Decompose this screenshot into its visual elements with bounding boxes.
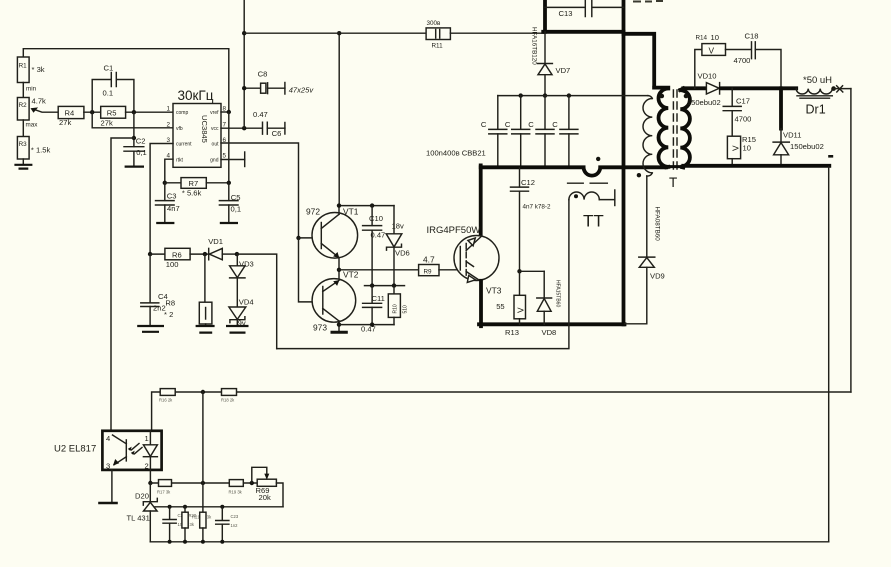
svg-text:R5: R5 — [107, 108, 117, 117]
svg-text:30кГц: 30кГц — [178, 88, 214, 103]
diode VD3 — [230, 254, 254, 278]
svg-text:VT3: VT3 — [486, 285, 502, 295]
thick + rail from secondary — [683, 86, 706, 90]
wire regulation row — [150, 482, 257, 484]
svg-text:C12: C12 — [521, 178, 535, 187]
current transformer TT — [568, 183, 615, 230]
svg-text:4700: 4700 — [734, 56, 751, 65]
diode VD1 — [208, 237, 236, 260]
svg-text:vfb: vfb — [176, 126, 183, 132]
svg-text:HFA16TB120: HFA16TB120 — [531, 27, 538, 65]
svg-text:VD3: VD3 — [239, 260, 254, 269]
inductor Dr1 — [796, 75, 832, 117]
svg-text:10: 10 — [743, 143, 751, 152]
wire VT1 emitter to VT2 — [338, 258, 340, 281]
capacitor C (3 of 4) — [528, 96, 554, 168]
capacitor C (2 of 4) — [505, 96, 530, 168]
svg-text:C5: C5 — [231, 193, 241, 202]
svg-text:0.47: 0.47 — [253, 110, 268, 119]
potentiometer R69 20k — [252, 467, 283, 507]
ground opto — [98, 502, 118, 505]
wire to VD8 — [520, 270, 545, 272]
zener VD4 9v — [226, 278, 254, 333]
IGBT VT3 IRG4PF50W — [427, 225, 502, 295]
resistor R18 — [221, 389, 237, 403]
svg-text:3: 3 — [106, 462, 110, 471]
svg-text:HFA08TB60: HFA08TB60 — [654, 207, 661, 242]
thick wire VT3 emitter down — [479, 281, 483, 326]
node ref/C21 — [168, 505, 172, 509]
wire supply column from startup row — [338, 33, 340, 205]
optocoupler U2 EL817 — [54, 431, 162, 471]
wire VT1 collector up to supply — [338, 206, 340, 215]
svg-text:rtkt: rtkt — [176, 157, 184, 163]
svg-text:972: 972 — [306, 206, 320, 216]
capacitor C5 — [219, 183, 241, 223]
node rail/R20 — [183, 540, 187, 544]
node cap4 — [567, 93, 571, 97]
capacitor C8 — [244, 70, 314, 95]
svg-text:D20: D20 — [135, 492, 149, 501]
node divider mid — [201, 481, 205, 485]
svg-text:V: V — [709, 46, 715, 56]
svg-text:vcc: vcc — [211, 126, 219, 132]
svg-text:V: V — [731, 145, 741, 151]
resistor R7 — [165, 178, 229, 198]
capacitor C10 — [363, 206, 386, 286]
pin 3 current wire — [150, 144, 173, 255]
svg-text:150ebu02: 150ebu02 — [790, 142, 824, 151]
node vcc — [242, 126, 246, 130]
pin 6 out wire to driver bases — [221, 143, 299, 238]
pin 4 rt/ct stub — [165, 159, 173, 183]
svg-text:VD7: VD7 — [556, 66, 571, 75]
node R6/VD1/R8 — [203, 252, 207, 256]
svg-text:C: C — [505, 120, 511, 129]
svg-text:18v: 18v — [392, 222, 404, 231]
svg-text:C13: C13 — [559, 9, 573, 18]
transistor VT2 (973 PNP) — [312, 269, 359, 332]
wire vfb jog from divider to pin2 — [92, 112, 173, 128]
wire TL431 ref row — [155, 506, 283, 508]
svg-text:comp: comp — [176, 110, 188, 116]
pin 5 gnd stub — [221, 152, 245, 167]
wire R1 top to vref — [23, 49, 229, 112]
svg-text:R8: R8 — [165, 299, 175, 308]
node vref — [227, 110, 231, 114]
ground under VT2 — [331, 331, 348, 334]
svg-text:2: 2 — [145, 462, 149, 471]
svg-text:4.7k: 4.7k — [32, 97, 47, 106]
svg-text:* 2: * 2 — [164, 310, 173, 319]
node pin3/R6/C4 — [148, 252, 152, 256]
svg-text:VD4: VD4 — [239, 298, 254, 307]
svg-text:V: V — [516, 307, 526, 313]
svg-text:R21: R21 — [192, 515, 200, 520]
transformer T secondary winding (thick) — [680, 88, 690, 167]
node rail/C21 — [168, 540, 172, 544]
svg-text:* 5.6k: * 5.6k — [182, 188, 202, 197]
wire vref column down to R7/C5 — [228, 112, 230, 183]
svg-text:VD9: VD9 — [650, 272, 665, 281]
svg-text:R7: R7 — [189, 179, 199, 188]
capacitor C (4 of 4) — [552, 96, 578, 168]
diode VD7 — [531, 27, 571, 96]
capacitor C11 — [361, 286, 385, 334]
transformer T aux winding (thin) — [643, 96, 652, 257]
node rail/R21 — [201, 540, 205, 544]
node VD6 mid — [392, 283, 396, 287]
svg-text:VD8: VD8 — [542, 328, 557, 337]
shunt regulator D20 TL431 — [127, 483, 158, 542]
diode VD10 — [687, 71, 721, 107]
wire VT2 collector to ground rail — [338, 321, 340, 332]
diode VD8 — [537, 271, 561, 337]
svg-text:4: 4 — [106, 434, 110, 443]
transformer T primary winding (thick) — [624, 34, 669, 168]
svg-text:1: 1 — [145, 434, 149, 443]
node primary phase dot — [660, 94, 665, 99]
svg-text:C18: C18 — [745, 32, 759, 41]
wire TT secondary return — [277, 200, 569, 349]
node startup/VT1 — [337, 31, 341, 35]
resistor R20 — [182, 507, 197, 542]
svg-text:TL 431: TL 431 — [127, 514, 150, 523]
node C10 mid — [370, 283, 374, 287]
capacitor C3 — [156, 183, 180, 223]
node secondary phase dot — [684, 94, 689, 99]
svg-text:4700: 4700 — [735, 115, 752, 124]
svg-text:300в: 300в — [427, 20, 442, 27]
svg-text:R3: R3 — [19, 141, 28, 148]
thick VD11 feed — [779, 88, 783, 128]
svg-text:R1: R1 — [19, 63, 28, 70]
capacitor C21 — [163, 507, 186, 542]
capacitor C17 — [723, 88, 751, 136]
svg-text:27k: 27k — [59, 118, 71, 127]
svg-text:R14: R14 — [696, 34, 708, 41]
svg-text:VD1: VD1 — [208, 237, 223, 246]
svg-text:R13: R13 — [505, 328, 519, 337]
svg-text:27k: 27k — [101, 118, 113, 127]
svg-text:C11: C11 — [372, 294, 385, 303]
svg-text:R6: R6 — [172, 250, 182, 259]
svg-text:Dr1: Dr1 — [806, 103, 826, 117]
svg-text:IRG4PF50W: IRG4PF50W — [427, 225, 481, 236]
capacitor C6 — [253, 110, 285, 138]
wiper arrow of R2 — [33, 109, 58, 112]
svg-text:gnd: gnd — [210, 157, 219, 163]
svg-text:7: 7 — [223, 121, 227, 128]
svg-text:T: T — [669, 175, 677, 190]
wire rail under core — [665, 165, 684, 168]
resistor R13 55 — [496, 271, 525, 337]
resistor R19 — [229, 480, 244, 495]
capacitor C13 — [545, 0, 624, 18]
svg-text:C: C — [552, 120, 558, 129]
svg-text:100: 100 — [166, 260, 179, 269]
svg-text:R18 2k: R18 2k — [221, 398, 235, 403]
svg-text:min: min — [26, 86, 37, 93]
svg-text:C10: C10 — [369, 214, 383, 223]
node pin2/row2 — [148, 481, 152, 485]
wire opto pin2 down — [149, 470, 151, 483]
svg-text:C3: C3 — [167, 191, 177, 200]
svg-text:0.47: 0.47 — [371, 230, 386, 239]
wire + feedback down — [850, 89, 852, 392]
svg-text:C2: C2 — [136, 137, 146, 146]
svg-text:R9: R9 — [424, 268, 433, 275]
node cap2 — [519, 93, 523, 97]
node ref/C23 — [220, 505, 224, 509]
svg-text:4n7 k78-2: 4n7 k78-2 — [523, 204, 552, 211]
wire R2-R3 — [22, 120, 24, 137]
node C8 tap — [242, 86, 246, 90]
node VD7/cap rail — [543, 93, 547, 97]
capacitor C4 — [137, 254, 168, 332]
svg-text:current: current — [176, 142, 192, 148]
wire opto pin3 to ground — [111, 470, 113, 502]
svg-text:4.7: 4.7 — [423, 255, 435, 265]
svg-text:0,1: 0,1 — [136, 148, 147, 157]
node C10 top — [370, 203, 374, 207]
transistor VT1 (972 NPN) — [306, 206, 359, 258]
resistor R10 510 — [388, 286, 408, 325]
wire R4-R5 — [84, 111, 101, 113]
svg-text:10: 10 — [711, 33, 719, 42]
wire R1-R2 — [22, 83, 24, 98]
capacitor C12 snubber — [511, 168, 552, 271]
node TT primary phase dot — [596, 157, 600, 161]
wire - feedback down — [828, 167, 830, 542]
terminal - output — [828, 155, 833, 158]
svg-text:R4: R4 — [65, 109, 75, 118]
svg-text:VD6: VD6 — [395, 249, 410, 258]
node R7/C5 — [227, 181, 231, 185]
svg-text:C8: C8 — [258, 70, 268, 79]
wire base column to VT2 — [299, 238, 323, 302]
snubber R14 — [695, 33, 726, 88]
svg-text:TT: TT — [583, 212, 604, 231]
svg-text:R19 3k: R19 3k — [229, 490, 243, 495]
node ref/R20 — [183, 505, 187, 509]
bulk capacitor rail — [498, 95, 648, 97]
svg-text:0.1: 0.1 — [103, 88, 114, 97]
thick + rail after VD10 — [721, 86, 796, 90]
svg-text:R2: R2 — [19, 102, 28, 109]
svg-text:VD10: VD10 — [698, 71, 717, 80]
svg-text:UC3845: UC3845 — [200, 115, 209, 143]
capacitor C (1 of 4) — [481, 96, 507, 168]
resistor R1 — [17, 57, 44, 83]
resistor R17 — [157, 480, 172, 495]
svg-text:5: 5 — [223, 153, 227, 160]
node rt/ct — [163, 181, 167, 185]
cropped label fragment top edge — [633, 0, 663, 3]
thick - output rail — [683, 164, 829, 168]
wire VD1 out to TT return — [237, 254, 277, 349]
svg-text:1: 1 — [167, 106, 171, 113]
svg-text:2: 2 — [167, 121, 171, 128]
capacitor C2 — [124, 112, 147, 166]
wire base row VT1 — [299, 237, 322, 239]
svg-text:0,1: 0,1 — [231, 204, 242, 213]
wire driver + rail — [339, 205, 394, 207]
resistor R5 — [101, 106, 126, 127]
thick bus top link — [543, 30, 623, 34]
svg-text:VT2: VT2 — [343, 269, 359, 279]
resistor R4 — [58, 106, 84, 127]
node VD1/VD3 — [235, 252, 239, 256]
svg-text:vref: vref — [210, 110, 219, 116]
pin 8 vref stub — [221, 111, 229, 113]
resistor R2 (potentiometer) — [17, 97, 46, 121]
pin 7 vcc wire — [221, 127, 262, 129]
diode VD9 — [625, 207, 665, 324]
node startup row — [242, 31, 246, 35]
svg-text:55: 55 — [496, 302, 504, 311]
resistor R21 — [192, 512, 212, 542]
svg-text:R17 3k: R17 3k — [157, 490, 171, 495]
svg-text:20k: 20k — [259, 493, 271, 502]
svg-text:1n2: 1n2 — [231, 523, 239, 528]
svg-text:C6: C6 — [272, 129, 282, 138]
svg-text:max: max — [26, 122, 39, 129]
node wiper tie — [250, 481, 254, 485]
zener VD6 18v — [386, 206, 410, 286]
resistor R16 — [159, 389, 175, 403]
svg-text:VD11: VD11 — [783, 131, 801, 140]
svg-text:150ebu02: 150ebu02 — [687, 98, 721, 107]
svg-text:U2 EL817: U2 EL817 — [54, 444, 96, 455]
node comp/C2 — [132, 110, 136, 114]
node Dr1 out — [831, 86, 836, 91]
snubber C18 — [726, 32, 782, 89]
resistor R9 4.7 — [339, 255, 460, 276]
thick primary return rail with TT hump — [481, 167, 667, 175]
node C2/opto junction — [132, 136, 136, 140]
svg-text:C: C — [528, 120, 534, 129]
wire C10/VD6 mid rail — [365, 285, 405, 287]
svg-text:*50 uH: *50 uH — [803, 75, 832, 86]
wire R5 to comp pin1 — [126, 111, 173, 113]
diode VD11 freewheel — [773, 129, 824, 166]
svg-text:C: C — [481, 120, 487, 129]
capacitor C1 (parallel R5) — [92, 64, 134, 113]
node C12/R13/VD8 — [517, 269, 521, 273]
svg-text:* 3k: * 3k — [32, 65, 45, 74]
node driver output — [337, 268, 341, 272]
node rail/C23 — [220, 540, 224, 544]
wire bottom return rail — [150, 541, 828, 543]
svg-text:C17: C17 — [736, 97, 750, 106]
wire divider column — [202, 392, 204, 512]
transformer T core — [673, 90, 677, 170]
svg-text:VT1: VT1 — [343, 206, 359, 216]
node R4/R5 junction — [90, 110, 94, 114]
resistor R15 10 — [727, 135, 756, 166]
thick bottom loop rail — [479, 322, 625, 326]
thick rail corner down to VT3 — [479, 165, 483, 236]
resistor R8 — [164, 254, 215, 333]
thick bus left column (HV+) — [543, 0, 547, 32]
svg-text:C1: C1 — [104, 64, 114, 73]
svg-text:C23: C23 — [231, 514, 239, 519]
svg-text:out: out — [212, 142, 220, 148]
node VT1 collector rail — [337, 203, 341, 207]
resistor R6 — [150, 248, 209, 269]
wire driver bottom rail — [339, 324, 394, 326]
ground under R3 — [14, 159, 32, 169]
wire opto feedback to comp node — [111, 138, 134, 431]
svg-text:R16 2k: R16 2k — [159, 398, 173, 403]
svg-text:47x25v: 47x25v — [289, 85, 315, 94]
svg-text:HFA15TB60: HFA15TB60 — [555, 280, 561, 307]
resistor R11 startup — [244, 20, 545, 50]
node aux phase dot — [637, 173, 641, 177]
node C11 bottom — [370, 322, 374, 326]
svg-text:* 1.5k: * 1.5k — [31, 145, 51, 154]
wire + sense rail — [152, 392, 851, 431]
node sense rail / divider — [201, 390, 205, 394]
svg-text:9v: 9v — [238, 319, 246, 328]
resistor R3 — [17, 137, 50, 160]
svg-text:R11: R11 — [432, 43, 444, 50]
op-amp/PWM IC U1 UC3845 — [167, 88, 227, 167]
svg-text:973: 973 — [313, 323, 327, 333]
capacitor C23 — [216, 507, 239, 542]
node VT2/ground rail — [337, 322, 341, 326]
wire vcc supply column from top — [243, 0, 245, 128]
svg-text:100n400в CBB21: 100n400в CBB21 — [426, 149, 486, 158]
thick bus right column (HV return to IGBT loop) — [622, 0, 626, 324]
svg-text:R10: R10 — [393, 304, 399, 313]
svg-text:4n7: 4n7 — [167, 204, 180, 213]
terminal + output — [834, 86, 851, 92]
node out/base junction — [296, 236, 300, 240]
svg-text:510: 510 — [403, 305, 409, 314]
